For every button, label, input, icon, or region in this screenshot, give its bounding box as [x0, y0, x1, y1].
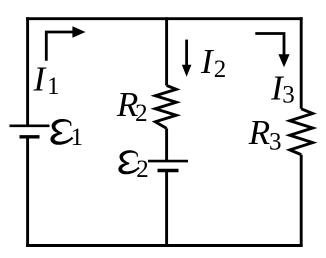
svg-text:2: 2 [135, 100, 148, 127]
svg-text:R: R [248, 113, 270, 152]
svg-text:2: 2 [214, 56, 227, 83]
battery E2 short plate [158, 169, 179, 172]
current arrow I2 (down) [182, 40, 192, 77]
current arrow I1 (bent, pointing right) [46, 26, 85, 60]
wire top horizontal [26, 17, 303, 20]
wire middle vertical upper (top to resistor R2) [165, 17, 168, 85]
wire right vertical upper (top to resistor R3) [300, 17, 303, 109]
battery E1 short plate [20, 135, 40, 138]
wire middle vertical lower (battery E2 to bottom) [165, 171, 168, 248]
label EMF E1 (script E) [50, 119, 73, 145]
svg-text:3: 3 [269, 129, 282, 156]
svg-text:3: 3 [282, 81, 295, 108]
svg-text:1: 1 [71, 124, 84, 151]
svg-text:1: 1 [47, 73, 60, 100]
wire right vertical lower (resistor R3 to bottom) [300, 155, 303, 247]
current arrow I3 (bent, pointing down) [255, 34, 289, 68]
wire middle (resistor R2 to battery E2) [165, 128, 168, 161]
wire left vertical lower (battery E1 to bottom) [26, 137, 29, 247]
wire bottom horizontal [26, 244, 303, 247]
svg-text:2: 2 [136, 156, 149, 183]
battery E1 long plate [10, 125, 50, 128]
battery E2 long plate [148, 160, 188, 163]
wire left vertical upper (top to battery E1) [26, 17, 29, 126]
resistor R3 [290, 109, 313, 155]
resistor R2 [155, 86, 176, 129]
label EMF E2 (script E) [118, 150, 139, 174]
